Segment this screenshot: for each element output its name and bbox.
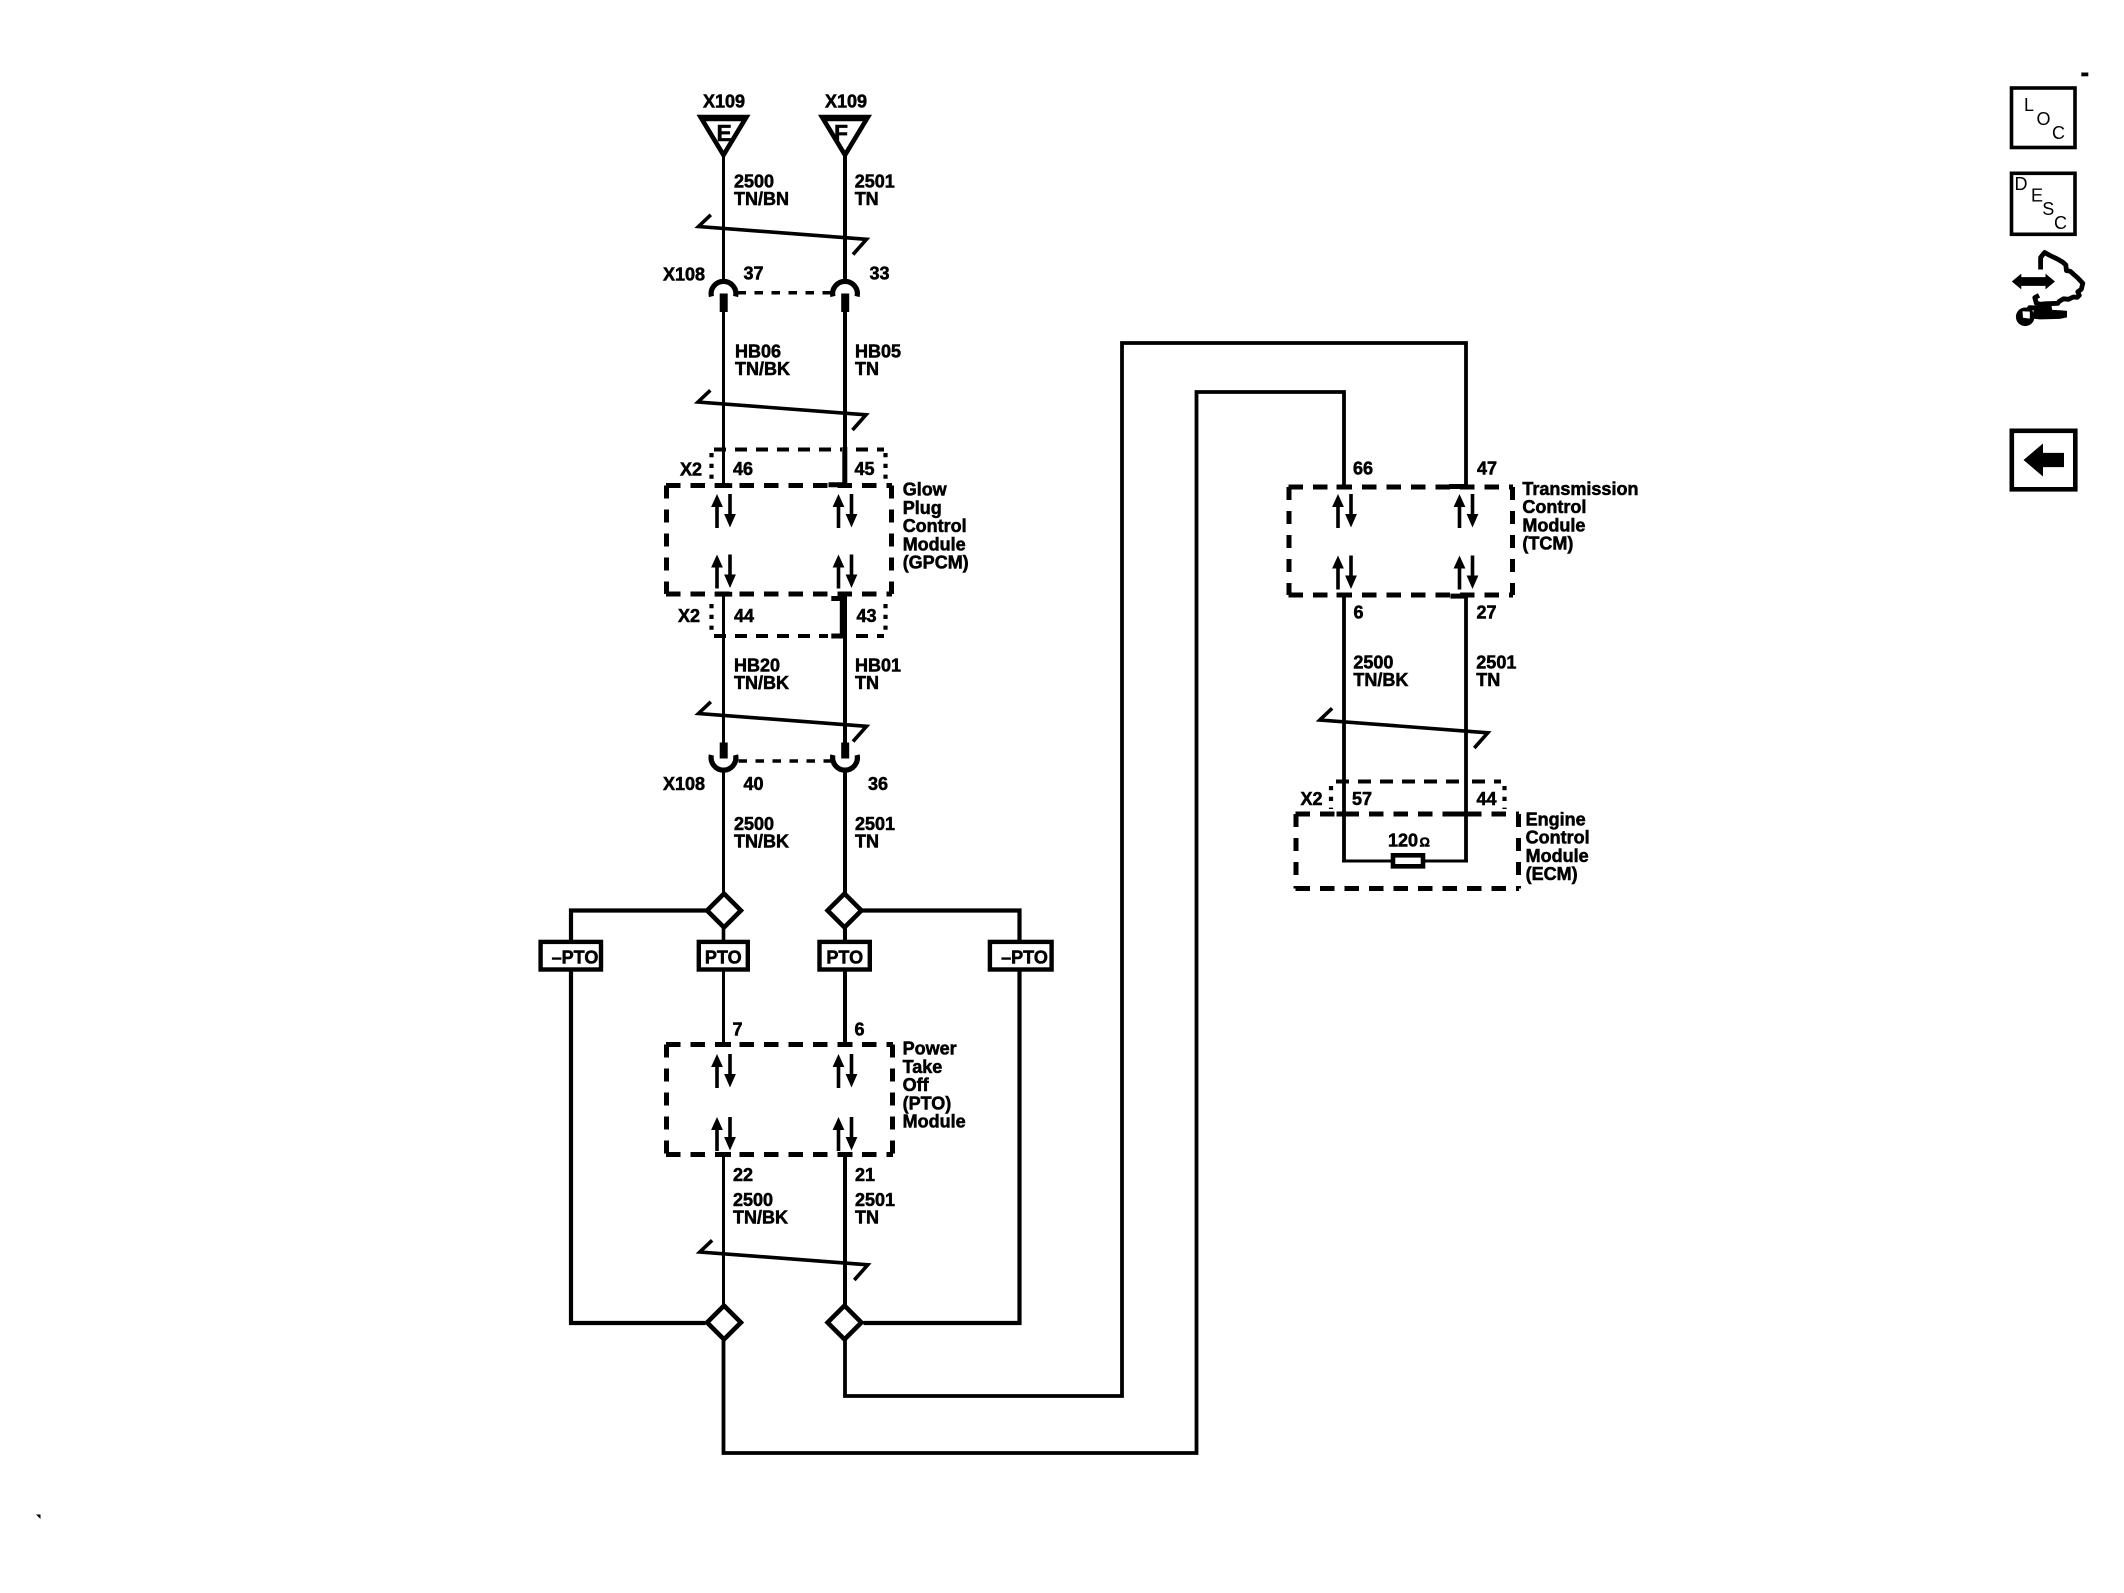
svg-text:Module: Module <box>903 1112 966 1132</box>
svg-text:TN/BK: TN/BK <box>733 1207 788 1227</box>
svg-text:TN: TN <box>855 673 879 693</box>
svg-text:44: 44 <box>734 606 754 626</box>
svg-text:46: 46 <box>733 459 753 479</box>
stray mark bottom left <box>36 1515 41 1520</box>
svg-text:Glow: Glow <box>903 480 948 500</box>
DESC icon box <box>2012 173 2076 234</box>
wire -PTO box right down to bottom splice <box>864 970 1020 1323</box>
switch box -PTO left <box>541 942 601 970</box>
svg-text:66: 66 <box>1353 459 1373 479</box>
svg-text:33: 33 <box>870 264 890 284</box>
svg-text:Ω: Ω <box>1420 835 1430 850</box>
svg-text:43: 43 <box>857 606 877 626</box>
svg-text:TN/BK: TN/BK <box>734 831 789 851</box>
wire HB01 TN GPCM pin 43 to X108 <box>843 593 847 744</box>
twisted pair symbol 2 <box>698 390 866 430</box>
wire 2501 TN X108 to splice diamond <box>843 770 847 893</box>
svg-text:–PTO: –PTO <box>1001 948 1048 968</box>
wire -PTO branch left: splice to -PTO box <box>571 911 706 942</box>
TCM pin 6 tick <box>1337 593 1352 598</box>
svg-text:C: C <box>2052 123 2065 143</box>
svg-text:120: 120 <box>1388 831 1418 851</box>
svg-text:TN: TN <box>855 1207 879 1227</box>
wiring repair icon (double arrow, outline, wrench) <box>2012 253 2083 327</box>
connector X109 terminal F triangle <box>818 115 872 160</box>
splice diamond upper right <box>828 894 862 928</box>
svg-text:Take: Take <box>903 1057 943 1077</box>
twisted pair symbol 3 <box>699 702 867 742</box>
svg-text:X2: X2 <box>680 460 702 480</box>
svg-text:Control: Control <box>1522 497 1586 517</box>
wire resistor right lead <box>1424 860 1468 863</box>
PTO module pin 6 tick <box>838 1042 853 1047</box>
svg-text:D: D <box>2015 174 2028 194</box>
twisted pair symbol 5 <box>1320 708 1488 748</box>
svg-text:X108: X108 <box>663 265 705 285</box>
wire 2501 TN from X109-F to X108 <box>843 155 847 280</box>
PTO module arrows pin 6 <box>833 1054 858 1088</box>
GPCM arrows pin 43 <box>833 555 858 589</box>
svg-text:X2: X2 <box>1301 789 1323 809</box>
PTO module pin 7 tick <box>716 1042 731 1047</box>
LOC icon box <box>2012 88 2076 148</box>
svg-text:Engine: Engine <box>1526 809 1586 829</box>
switch box -PTO right <box>990 942 1052 970</box>
svg-text:–PTO: –PTO <box>552 948 599 968</box>
svg-text:7: 7 <box>733 1020 743 1040</box>
svg-text:(ECM): (ECM) <box>1526 864 1578 884</box>
TCM arrows pin 47 <box>1454 494 1479 528</box>
inline connector X108 pin 37 (arc and plug) <box>711 281 736 312</box>
svg-text:TN: TN <box>855 831 879 851</box>
wire PTO switch box to PTO module pin 6 <box>843 970 847 1046</box>
svg-text:27: 27 <box>1477 603 1497 623</box>
svg-text:TN: TN <box>1476 670 1500 690</box>
svg-text:L: L <box>2024 95 2034 115</box>
svg-text:PTO: PTO <box>705 948 742 968</box>
PTO module arrows pin 21 <box>833 1117 858 1151</box>
svg-text:TN/BK: TN/BK <box>734 673 789 693</box>
svg-text:TN/BK: TN/BK <box>735 359 790 379</box>
svg-text:TN: TN <box>855 359 879 379</box>
svg-text:X108: X108 <box>663 774 705 794</box>
wire 2500 TN/BK PTO module pin 22 to bottom splice <box>722 1153 725 1305</box>
ECM pin 57 tick <box>1337 812 1352 817</box>
GPCM arrows pin 44 <box>711 555 736 589</box>
stray mark top right <box>2081 73 2088 77</box>
wire 2500 TN/BK X108 to splice diamond <box>722 770 725 893</box>
svg-text:47: 47 <box>1477 459 1497 479</box>
svg-text:57: 57 <box>1352 789 1372 809</box>
PTO module arrows pin 22 <box>711 1117 736 1151</box>
TCM pin 47 bracket <box>1449 484 1468 489</box>
wire -PTO branch right: splice to -PTO box <box>863 911 1020 942</box>
svg-text:X109: X109 <box>825 92 867 112</box>
svg-text:TN/BK: TN/BK <box>1353 670 1408 690</box>
twisted pair symbol 4 <box>700 1240 868 1280</box>
GPCM module label <box>903 480 969 573</box>
wire 2501 net: bottom splice down, right, up, right, down to TCM pin 47 <box>845 343 1466 1396</box>
dashed line X108 row 2 <box>739 759 832 763</box>
wire TCM pin 27 down to ECM pin 44 <box>1464 594 1468 862</box>
svg-text:O: O <box>2037 109 2051 129</box>
svg-text:Off: Off <box>903 1075 930 1095</box>
TCM pin 66 tick <box>1337 485 1352 490</box>
svg-text:Power: Power <box>903 1039 957 1059</box>
splice diamond lower left <box>707 1306 741 1340</box>
svg-text:X109: X109 <box>703 92 745 112</box>
svg-text:22: 22 <box>733 1165 753 1185</box>
wire resistor left lead <box>1342 860 1392 863</box>
svg-text:Control: Control <box>903 516 967 536</box>
twisted pair symbol 1 <box>699 215 867 255</box>
dashed line X108 row 1 <box>738 291 832 295</box>
connector X109 terminal E triangle <box>697 115 751 160</box>
wire TCM pin 6 down to ECM pin 57 and 120 ohm resistor <box>1342 594 1346 862</box>
Engine Control Module (ECM) dashed box <box>1296 814 1520 889</box>
splice diamond upper left <box>707 894 741 928</box>
svg-text:Control: Control <box>1526 828 1590 848</box>
svg-text:(TCM): (TCM) <box>1522 534 1573 554</box>
splice diamond lower right <box>828 1306 862 1340</box>
PTO module arrows pin 7 <box>711 1054 736 1088</box>
wire splice to PTO switch box <box>722 928 726 941</box>
TCM arrows pin 27 <box>1454 556 1479 590</box>
GPCM arrows pin 46 <box>711 494 736 528</box>
ECM module label <box>1526 809 1590 884</box>
PTO module pin 21 tick <box>838 1152 853 1157</box>
svg-text:21: 21 <box>855 1165 875 1185</box>
wire 2500 net: bottom splice down, right, up, right, down to TCM pin 66 <box>724 392 1345 1453</box>
svg-text:37: 37 <box>744 264 764 284</box>
inline connector X108 pin 33 (arc and plug) <box>833 281 858 312</box>
svg-text:TN: TN <box>855 189 879 209</box>
svg-text:E: E <box>717 120 732 146</box>
svg-text:Module: Module <box>903 534 966 554</box>
svg-text:(PTO): (PTO) <box>903 1093 952 1113</box>
wire HB20 TN/BK GPCM pin 44 to X108 <box>722 593 725 744</box>
wire -PTO box left down to bottom splice <box>571 970 706 1323</box>
svg-text:36: 36 <box>868 774 888 794</box>
svg-text:40: 40 <box>744 774 764 794</box>
TCM module label <box>1522 479 1638 554</box>
wire 2500 TN/BN from X109-E to X108 <box>722 155 725 280</box>
svg-text:Plug: Plug <box>903 498 942 518</box>
connector row X2 pins 44/43 below GPCM <box>712 592 886 636</box>
wire PTO switch box to PTO module pin 7 <box>722 970 725 1046</box>
TCM pin 27 bracket <box>1450 594 1468 599</box>
svg-text:PTO: PTO <box>826 948 863 968</box>
wire splice to PTO switch box <box>843 928 847 941</box>
switch box PTO right <box>820 942 870 970</box>
wire 2501 TN PTO module pin 21 to bottom splice <box>843 1153 847 1305</box>
connector row X2 pins 57/44 above ECM <box>1331 782 1505 817</box>
svg-text:45: 45 <box>855 459 875 479</box>
svg-text:C: C <box>2054 213 2067 233</box>
Glow Plug Control Module (GPCM) dashed box <box>666 486 892 595</box>
svg-text:Module: Module <box>1526 846 1589 866</box>
Transmission Control Module (TCM) dashed box <box>1289 487 1514 595</box>
svg-text:X2: X2 <box>678 606 700 626</box>
svg-text:Module: Module <box>1522 515 1585 535</box>
TCM arrows pin 66 <box>1332 494 1357 528</box>
svg-text:6: 6 <box>855 1020 865 1040</box>
switch box PTO left <box>699 942 748 970</box>
svg-text:44: 44 <box>1477 789 1497 809</box>
connector row X2 pins 46/45 above GPCM <box>712 447 886 488</box>
svg-text:Transmission: Transmission <box>1522 479 1638 499</box>
svg-text:F: F <box>834 120 848 146</box>
PTO module pin 22 tick <box>716 1152 731 1157</box>
inline connector X108 pin 40 (plug and arc) <box>711 743 736 771</box>
svg-text:6: 6 <box>1354 603 1364 623</box>
PTO module label <box>903 1039 966 1132</box>
svg-text:TN/BN: TN/BN <box>734 189 789 209</box>
inline connector X108 pin 36 (plug and arc) <box>833 743 858 771</box>
TCM arrows pin 6 <box>1332 556 1357 590</box>
wire HB05 TN X108 to GPCM pin 45 <box>843 311 847 487</box>
svg-text:S: S <box>2042 199 2054 219</box>
wire HB06 TN/BK X108 to GPCM pin 46 <box>722 311 725 487</box>
Power Take Off (PTO) Module dashed box <box>666 1045 893 1155</box>
svg-text:(GPCM): (GPCM) <box>903 553 969 573</box>
resistor 120 ohm body <box>1393 855 1423 866</box>
back arrow icon box <box>2012 431 2076 490</box>
GPCM arrows pin 45 <box>833 494 858 528</box>
